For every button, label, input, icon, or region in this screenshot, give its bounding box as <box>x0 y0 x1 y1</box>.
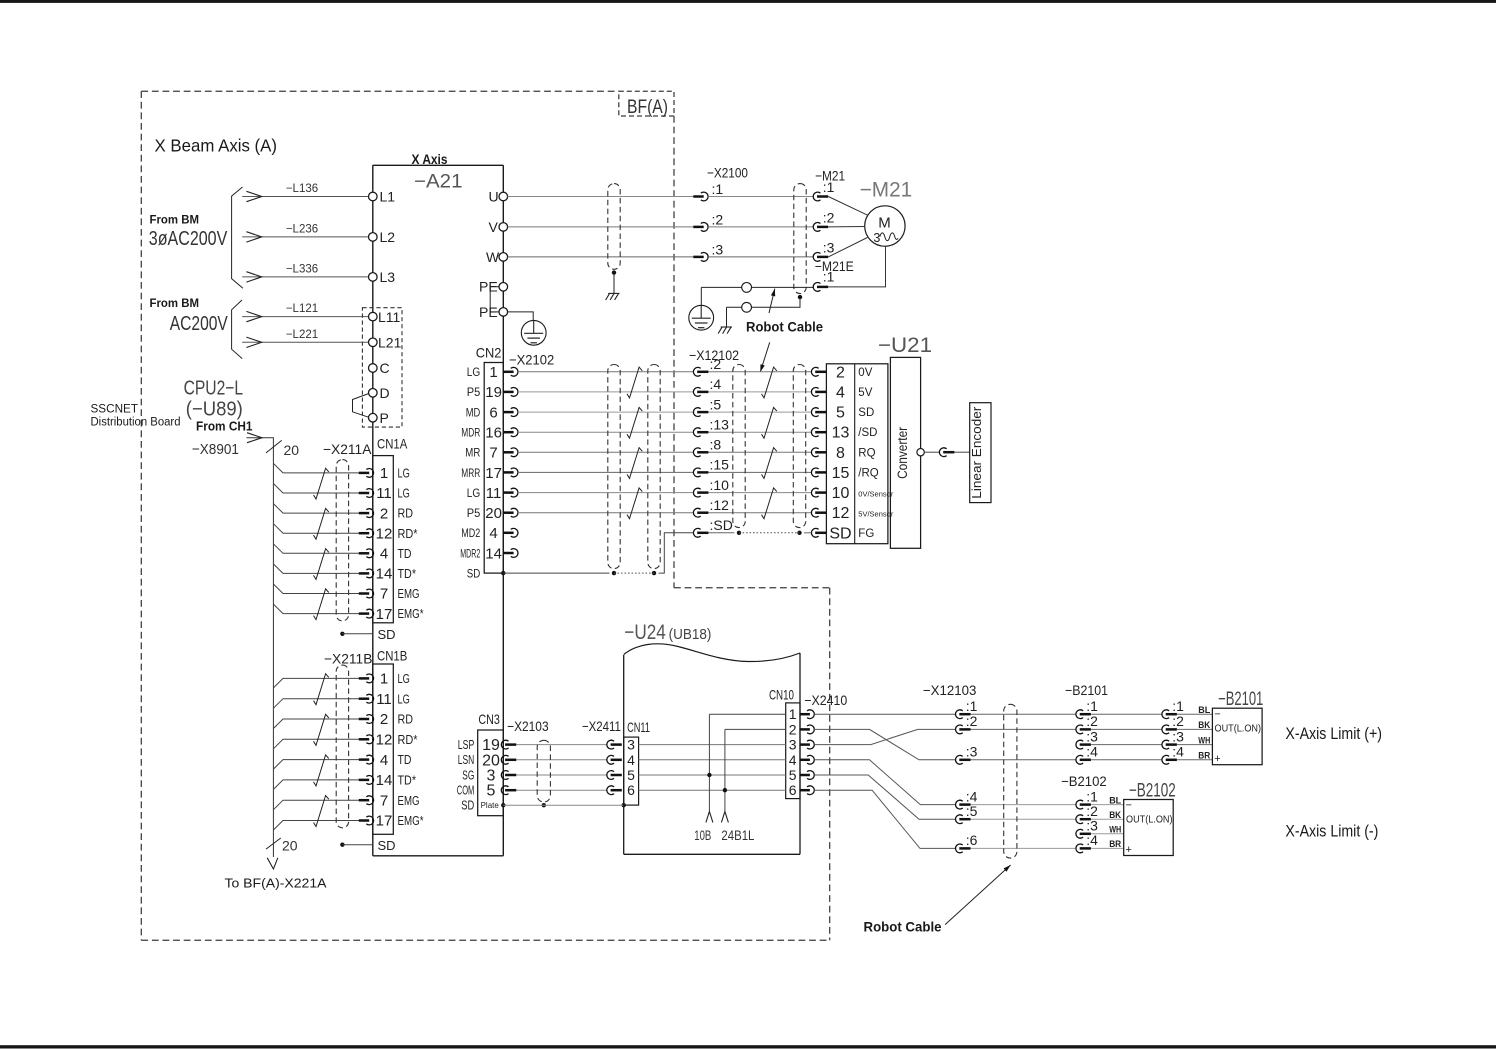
svg-text:TD*: TD* <box>398 566 417 581</box>
svg-text:19: 19 <box>485 384 502 401</box>
svg-text:3øAC200V: 3øAC200V <box>149 228 228 250</box>
svg-text:P5: P5 <box>467 506 481 520</box>
svg-text:−X8901: −X8901 <box>192 441 239 458</box>
svg-text:−: − <box>1126 800 1132 812</box>
svg-text:FG: FG <box>858 528 874 540</box>
svg-text:−L136: −L136 <box>286 183 318 195</box>
svg-text:CN1B: CN1B <box>377 648 407 664</box>
svg-text:−X2410: −X2410 <box>804 692 847 708</box>
svg-text:4: 4 <box>836 384 845 401</box>
svg-text:2: 2 <box>380 505 388 522</box>
svg-text::1: :1 <box>712 181 724 197</box>
svg-text:12: 12 <box>376 732 393 749</box>
svg-text:2: 2 <box>836 364 845 381</box>
svg-text:BF(A): BF(A) <box>627 97 668 118</box>
svg-text:6: 6 <box>489 404 497 421</box>
svg-text:17: 17 <box>485 465 502 482</box>
svg-text:LSP: LSP <box>458 738 475 752</box>
svg-text:−B2102: −B2102 <box>1061 773 1107 789</box>
svg-text:(−U89): (−U89) <box>186 399 243 421</box>
svg-text:5: 5 <box>627 767 635 783</box>
svg-text::15: :15 <box>710 457 730 473</box>
svg-text:CN1A: CN1A <box>377 436 408 452</box>
svg-text:−X2102: −X2102 <box>509 352 554 368</box>
svg-text:L3: L3 <box>380 269 396 285</box>
svg-text:Distribution Board: Distribution Board <box>91 417 181 429</box>
svg-text:CN11: CN11 <box>627 719 650 735</box>
svg-text:L11: L11 <box>378 309 401 325</box>
svg-text::3: :3 <box>823 239 835 255</box>
svg-text:1: 1 <box>789 706 797 722</box>
svg-text:15: 15 <box>832 465 850 482</box>
svg-text:8: 8 <box>836 445 845 462</box>
svg-text:BL: BL <box>1198 705 1210 716</box>
svg-text:EMG*: EMG* <box>398 606 424 621</box>
svg-text:SD: SD <box>858 407 874 419</box>
svg-text:−B2102: −B2102 <box>1129 781 1176 802</box>
svg-text:X-Axis Limit (+): X-Axis Limit (+) <box>1285 725 1382 743</box>
svg-text::3: :3 <box>1086 818 1098 834</box>
svg-text:3: 3 <box>873 231 880 245</box>
svg-text::2: :2 <box>1086 803 1098 819</box>
svg-text:U: U <box>489 189 499 205</box>
svg-text::1: :1 <box>823 179 835 195</box>
svg-text:17: 17 <box>376 606 393 623</box>
svg-text:SD: SD <box>378 838 396 853</box>
svg-text:+: + <box>1214 753 1220 765</box>
svg-text:0V: 0V <box>858 367 872 379</box>
svg-text:BL: BL <box>1109 795 1121 806</box>
svg-text:TD*: TD* <box>398 773 417 788</box>
svg-text:−U21: −U21 <box>878 334 932 357</box>
svg-text:12: 12 <box>376 525 393 542</box>
svg-text:WH: WH <box>1198 735 1210 746</box>
svg-text::4: :4 <box>1086 832 1098 848</box>
svg-text:P: P <box>380 410 389 426</box>
svg-text:X-Axis Limit (-): X-Axis Limit (-) <box>1285 823 1378 841</box>
svg-text:17: 17 <box>376 813 393 830</box>
svg-text:4: 4 <box>489 525 497 542</box>
svg-text:1: 1 <box>380 465 388 482</box>
svg-text::6: :6 <box>966 832 978 848</box>
svg-text:M: M <box>878 215 891 232</box>
svg-text:7: 7 <box>380 792 388 809</box>
svg-text:LG: LG <box>467 486 481 500</box>
svg-text:EMG: EMG <box>398 586 420 601</box>
svg-text:24B1L: 24B1L <box>721 827 754 843</box>
svg-text::2: :2 <box>1172 713 1184 729</box>
svg-text:BK: BK <box>1198 720 1210 731</box>
svg-text:L1: L1 <box>380 189 396 205</box>
svg-text:Robot Cable: Robot Cable <box>864 919 942 935</box>
svg-text:W: W <box>486 249 500 265</box>
svg-text:−X2411: −X2411 <box>582 718 621 734</box>
svg-text:MDR2: MDR2 <box>460 546 480 560</box>
svg-text:L21: L21 <box>378 335 402 351</box>
svg-text::2: :2 <box>710 356 722 372</box>
svg-text:Converter: Converter <box>895 426 910 478</box>
svg-text:CN2: CN2 <box>476 345 502 361</box>
svg-text:TD: TD <box>398 752 412 767</box>
svg-text:L2: L2 <box>380 229 396 245</box>
svg-text:7: 7 <box>489 445 497 462</box>
svg-text:4: 4 <box>789 752 797 768</box>
svg-text:CN10: CN10 <box>769 687 794 703</box>
svg-text::1: :1 <box>1086 788 1098 804</box>
svg-text::4: :4 <box>1172 744 1184 760</box>
svg-text::12: :12 <box>710 497 730 513</box>
svg-text:−A21: −A21 <box>414 172 463 193</box>
svg-text:14: 14 <box>376 772 393 789</box>
svg-text:RD*: RD* <box>398 732 418 747</box>
svg-text:COM: COM <box>457 784 475 798</box>
svg-text::3: :3 <box>1172 728 1184 744</box>
svg-text:SD: SD <box>467 567 481 581</box>
svg-text:−: − <box>1214 709 1220 721</box>
svg-text::3: :3 <box>966 744 978 760</box>
svg-text:4: 4 <box>627 752 635 768</box>
svg-text:11: 11 <box>376 691 392 708</box>
svg-text:RD: RD <box>398 712 414 727</box>
svg-text:1: 1 <box>380 671 388 688</box>
svg-text:10B: 10B <box>694 827 711 843</box>
svg-text:12: 12 <box>832 505 850 522</box>
svg-text:MD: MD <box>466 405 481 419</box>
svg-text:−X211A: −X211A <box>323 441 372 457</box>
svg-text:LG: LG <box>398 466 410 481</box>
svg-text:TD: TD <box>398 546 412 561</box>
svg-text:Linear Encoder: Linear Encoder <box>970 407 984 499</box>
svg-text:0V/Sensor: 0V/Sensor <box>858 490 894 499</box>
svg-text:6: 6 <box>789 782 797 798</box>
svg-text:MDR: MDR <box>461 426 480 440</box>
svg-text:BR: BR <box>1109 839 1121 850</box>
svg-text:MR: MR <box>465 446 480 460</box>
svg-text:X Beam Axis (A): X Beam Axis (A) <box>155 136 278 156</box>
svg-text:4: 4 <box>380 546 388 563</box>
svg-text:P5: P5 <box>467 385 481 399</box>
svg-text:5: 5 <box>789 767 797 783</box>
svg-text:16: 16 <box>485 425 502 442</box>
svg-text:Robot Cable: Robot Cable <box>746 320 823 335</box>
svg-text:From BM: From BM <box>150 215 200 227</box>
svg-text:To BF(A)-X221A: To BF(A)-X221A <box>225 876 327 891</box>
svg-text:20: 20 <box>485 505 502 522</box>
svg-text:EMG*: EMG* <box>398 813 424 828</box>
svg-text:−L121: −L121 <box>286 303 318 315</box>
svg-text:SG: SG <box>462 768 474 782</box>
svg-text:−U24: −U24 <box>624 621 666 644</box>
svg-text:AC200V: AC200V <box>170 313 229 335</box>
svg-text:LG: LG <box>398 671 410 686</box>
svg-text::3: :3 <box>712 241 724 257</box>
svg-text:SD: SD <box>378 627 396 642</box>
svg-text:D: D <box>380 385 390 401</box>
svg-text:−B2101: −B2101 <box>1065 682 1108 698</box>
svg-text::5: :5 <box>966 803 978 819</box>
svg-text:SD: SD <box>461 799 474 813</box>
svg-text:BR: BR <box>1198 751 1210 762</box>
svg-text::1: :1 <box>1086 698 1098 714</box>
svg-text::10: :10 <box>710 477 730 493</box>
svg-text:EMG: EMG <box>398 793 420 808</box>
svg-text:−L236: −L236 <box>286 223 318 235</box>
svg-text:RD: RD <box>398 506 414 521</box>
svg-text::1: :1 <box>1172 698 1184 714</box>
svg-text:LG: LG <box>398 486 410 501</box>
svg-text:5: 5 <box>836 405 845 422</box>
svg-text:MRR: MRR <box>461 466 480 480</box>
svg-text:LG: LG <box>467 365 481 379</box>
svg-text:14: 14 <box>485 545 502 562</box>
svg-text:/RQ: /RQ <box>858 467 879 479</box>
svg-text:CPU2−L: CPU2−L <box>184 378 244 400</box>
svg-text:From CH1: From CH1 <box>196 420 253 434</box>
svg-text::13: :13 <box>710 416 730 432</box>
svg-text:RD*: RD* <box>398 526 418 541</box>
svg-text:−B2101: −B2101 <box>1218 689 1263 710</box>
svg-text::3: :3 <box>1086 728 1098 744</box>
svg-text:SD: SD <box>829 525 851 542</box>
svg-text:LSN: LSN <box>458 753 475 767</box>
svg-text:+: + <box>1126 844 1132 856</box>
svg-text:11: 11 <box>486 485 502 502</box>
svg-text:−X12103: −X12103 <box>923 682 977 698</box>
svg-text:C: C <box>380 360 390 376</box>
svg-text:13: 13 <box>832 425 850 442</box>
svg-text:WH: WH <box>1109 825 1121 836</box>
svg-text:2: 2 <box>380 711 388 728</box>
svg-text:CN3: CN3 <box>478 711 500 727</box>
svg-text:−X2103: −X2103 <box>507 718 549 734</box>
svg-text:−M21: −M21 <box>860 179 913 202</box>
svg-text:RQ: RQ <box>858 447 875 459</box>
svg-text:−L221: −L221 <box>286 329 318 341</box>
svg-text::8: :8 <box>710 437 722 453</box>
svg-text:2: 2 <box>789 721 797 737</box>
svg-text:−X2100: −X2100 <box>707 165 748 181</box>
svg-text:/SD: /SD <box>858 427 877 439</box>
svg-text:MD2: MD2 <box>461 526 480 540</box>
svg-text:5V/Sensor: 5V/Sensor <box>858 510 894 519</box>
svg-text:4: 4 <box>380 752 388 769</box>
svg-text:5: 5 <box>487 783 496 800</box>
svg-text::2: :2 <box>823 209 835 225</box>
svg-text:3: 3 <box>627 737 635 753</box>
svg-text::4: :4 <box>1086 744 1098 760</box>
svg-text:7: 7 <box>380 586 388 603</box>
svg-text:(UB18): (UB18) <box>669 626 712 643</box>
svg-text:1: 1 <box>489 364 497 381</box>
svg-text:20: 20 <box>282 838 298 854</box>
svg-text:20: 20 <box>284 442 300 458</box>
svg-text::1: :1 <box>823 269 835 285</box>
svg-text:10: 10 <box>832 485 850 502</box>
svg-text:6: 6 <box>627 782 635 798</box>
svg-text::2: :2 <box>712 211 724 227</box>
svg-text:SSCNET: SSCNET <box>91 404 139 416</box>
svg-text:OUT(L.ON): OUT(L.ON) <box>1126 815 1173 826</box>
svg-text:OUT(L.ON): OUT(L.ON) <box>1215 724 1262 735</box>
svg-text::SD: :SD <box>710 517 733 533</box>
svg-text::4: :4 <box>710 376 722 392</box>
svg-text:−X211B: −X211B <box>324 651 372 667</box>
svg-text:From BM: From BM <box>150 298 200 310</box>
svg-text::4: :4 <box>966 788 978 804</box>
svg-text:3: 3 <box>789 737 797 753</box>
svg-text::2: :2 <box>1086 713 1098 729</box>
svg-text:5V: 5V <box>858 387 872 399</box>
svg-text:Plate: Plate <box>481 801 500 810</box>
svg-text:−L336: −L336 <box>286 263 318 275</box>
svg-text::2: :2 <box>966 713 978 729</box>
svg-text:V: V <box>489 219 499 235</box>
svg-text:11: 11 <box>376 485 392 502</box>
svg-text::5: :5 <box>710 396 722 412</box>
svg-text:BK: BK <box>1109 810 1121 821</box>
svg-text:LG: LG <box>398 691 410 706</box>
svg-text::1: :1 <box>966 698 978 714</box>
svg-text:14: 14 <box>376 566 393 583</box>
